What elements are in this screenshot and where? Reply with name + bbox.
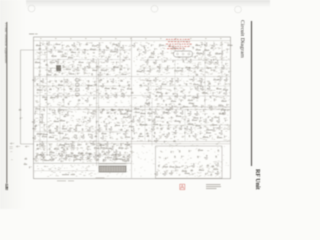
transistor Q93 <box>185 126 188 130</box>
wire <box>34 59 130 61</box>
capacitor C129 <box>78 144 81 147</box>
transistor Q70 <box>180 111 183 115</box>
transistor Q76 <box>88 118 91 122</box>
inductor L3 <box>86 43 88 45</box>
resistor R78 <box>58 84 64 86</box>
transistor Q84 <box>55 126 58 130</box>
net label <box>94 112 97 113</box>
transistor Q86 <box>74 127 77 131</box>
net label <box>178 57 181 58</box>
capacitor C88 <box>214 99 217 102</box>
inductor L58 <box>145 124 147 126</box>
resistor R61 <box>36 154 42 156</box>
capacitor C102 <box>63 125 66 128</box>
resistor R83 <box>202 92 208 94</box>
net label <box>203 74 205 75</box>
resistor R132 <box>124 160 130 162</box>
net label <box>138 128 140 130</box>
resistor R30 <box>42 96 48 98</box>
resistor R36 <box>135 111 141 113</box>
net label <box>116 138 118 139</box>
transistor Q58 <box>148 95 151 99</box>
capacitor C7 <box>124 51 127 54</box>
capacitor C95 <box>84 116 87 119</box>
capacitor C65 <box>62 72 65 75</box>
transistor Q5 <box>49 49 52 53</box>
capacitor C139 <box>226 104 229 107</box>
capacitor C103 <box>123 125 126 128</box>
capacitor C59 <box>108 56 111 59</box>
capacitor C10 <box>116 61 119 64</box>
net label <box>68 160 70 161</box>
capacitor C132 <box>59 158 62 161</box>
diode D42 <box>160 124 162 126</box>
transistor Q57 <box>122 94 125 98</box>
transistor Q138 <box>103 157 106 161</box>
resistor R7 <box>71 51 77 53</box>
diode D12 <box>167 122 169 124</box>
resistor R54 <box>54 148 60 150</box>
net label <box>59 92 62 94</box>
transistor Q40 <box>111 79 114 83</box>
inductor L55 <box>108 116 110 118</box>
resistor R127 <box>184 172 190 174</box>
transistor Q30 <box>204 43 207 47</box>
resistor R40 <box>219 113 225 115</box>
diode D41 <box>98 125 100 127</box>
wire <box>21 49 34 51</box>
capacitor C104 <box>168 124 171 127</box>
resistor R71 <box>121 73 127 75</box>
resistor R112 <box>206 132 212 134</box>
transistor Q141 <box>191 164 194 168</box>
net label <box>98 93 101 94</box>
wire <box>34 170 95 172</box>
capacitor C71 <box>167 65 170 68</box>
net label <box>45 56 47 58</box>
net label <box>55 138 58 139</box>
net label <box>216 97 219 98</box>
resistor R49 <box>62 137 68 139</box>
capacitor C11 <box>106 69 109 72</box>
net label <box>140 79 142 81</box>
diode D16 <box>146 129 148 131</box>
inductor L47 <box>121 93 123 95</box>
transistor Q44 <box>191 77 194 81</box>
net label <box>39 71 41 72</box>
net label <box>208 171 211 172</box>
transistor Q154 <box>49 157 52 161</box>
transistor Q62 <box>195 95 198 99</box>
wire <box>46 41 48 156</box>
net label <box>95 133 98 134</box>
capacitor C8 <box>44 60 47 63</box>
capacitor C45 <box>173 127 176 130</box>
diode D6 <box>107 81 109 83</box>
IC U3 <box>76 89 80 92</box>
resistor R67 <box>68 57 74 59</box>
net label <box>84 57 87 58</box>
resistor R28 <box>216 88 222 90</box>
inductor L39 <box>106 73 108 75</box>
resistor R122 <box>213 168 219 170</box>
inductor L51 <box>45 99 47 101</box>
inductor L18 <box>148 119 150 121</box>
net label <box>88 110 90 112</box>
net label <box>113 85 116 87</box>
capacitor C20 <box>225 63 228 66</box>
transistor Q31 <box>212 43 215 47</box>
capacitor C54 <box>66 154 69 157</box>
inductor L25 <box>95 135 97 137</box>
net label <box>196 93 199 94</box>
capacitor C52 <box>49 154 52 157</box>
resistor R125 <box>169 166 175 168</box>
diode D51 <box>179 150 181 152</box>
net label <box>72 70 75 71</box>
resistor R3 <box>55 43 61 45</box>
inductor L1 <box>19 109 21 111</box>
diode D29 <box>144 47 146 49</box>
net label <box>155 99 158 101</box>
net label <box>219 47 221 49</box>
net label <box>35 101 38 102</box>
resistor R10 <box>50 61 56 63</box>
transistor Q140 <box>204 155 207 159</box>
capacitor C21 <box>221 71 224 74</box>
capacitor C34 <box>35 112 38 115</box>
net label <box>101 96 104 97</box>
capacitor C135 <box>35 110 38 113</box>
transistor Q67 <box>153 110 156 114</box>
resistor R95 <box>155 116 161 118</box>
net label <box>195 109 198 110</box>
net label <box>93 55 96 57</box>
spine rule <box>6 22 8 184</box>
net label <box>122 122 125 123</box>
wire <box>184 110 186 141</box>
net label <box>101 62 104 64</box>
capacitor C35 <box>41 113 44 116</box>
inductor L61 <box>128 144 130 146</box>
page label RF UNIT <box>29 33 38 36</box>
transistor Q74 <box>32 120 35 124</box>
capacitor C56 <box>46 47 49 50</box>
transistor Q142 <box>216 163 219 167</box>
capacitor C61 <box>126 56 129 59</box>
net label <box>63 89 66 90</box>
resistor R63 <box>112 154 118 156</box>
resistor R2 <box>36 44 42 46</box>
net label <box>207 150 209 152</box>
resistor R89 <box>110 109 116 111</box>
inductor L26 <box>147 135 149 137</box>
net label <box>166 170 169 171</box>
transistor Q14 <box>75 67 78 71</box>
wire <box>174 60 176 100</box>
capacitor C105 <box>65 133 68 136</box>
net label <box>171 52 174 53</box>
net label <box>80 65 82 66</box>
schematic border frame <box>34 37 231 179</box>
inductor L66 <box>173 140 175 142</box>
net label <box>227 110 231 111</box>
transistor Q101 <box>101 136 104 140</box>
wire <box>59 107 61 141</box>
transistor Q129 <box>128 114 131 118</box>
net label <box>220 45 223 46</box>
diode D3 <box>213 70 215 72</box>
transistor Q33 <box>207 52 210 56</box>
net label <box>224 84 226 85</box>
resistor R39 <box>163 111 169 113</box>
capacitor C68 <box>154 48 157 51</box>
diode D37 <box>149 108 151 110</box>
wire <box>160 95 230 97</box>
diode D21 <box>36 156 38 158</box>
net label <box>183 48 185 50</box>
transistor Q79 <box>152 119 155 123</box>
wire <box>98 60 100 166</box>
resistor R8 <box>110 50 116 52</box>
inductor L45 <box>208 83 210 85</box>
wire antenna feed <box>20 50 22 144</box>
inductor L16 <box>100 111 102 113</box>
transistor Q21 <box>145 60 148 64</box>
diode D7 <box>58 88 60 90</box>
wire <box>34 49 130 51</box>
capacitor C112 <box>200 132 203 135</box>
transistor Q134 <box>41 143 44 147</box>
inductor L69 <box>212 165 214 167</box>
capacitor C92 <box>180 107 183 110</box>
resistor R82 <box>156 91 162 93</box>
net label <box>155 83 157 85</box>
capacitor C1 <box>20 117 23 120</box>
capacitor C128 <box>37 144 40 147</box>
resistor R117 <box>75 158 81 160</box>
net label <box>213 113 215 115</box>
capacitor C117 <box>102 151 105 154</box>
component value labels <box>36 42 231 177</box>
net label <box>37 92 39 93</box>
diode D27 <box>121 65 123 67</box>
transistor Q50 <box>159 86 162 90</box>
capacitor C94 <box>57 118 60 121</box>
capacitor C15 <box>139 53 142 56</box>
resistor R68 <box>113 66 119 68</box>
IC U4 <box>76 93 80 96</box>
inductor L8 <box>60 80 62 82</box>
capacitor C119 <box>148 140 151 143</box>
inductor L68 <box>207 165 209 167</box>
transistor Q105 <box>110 146 113 150</box>
diode D22 <box>54 47 56 49</box>
inductor L67 <box>191 170 193 172</box>
resistor R97 <box>193 117 199 119</box>
resistor R47 <box>42 135 48 137</box>
inductor L34 <box>39 48 41 50</box>
diode D10 <box>114 112 116 114</box>
diode D39 <box>115 118 117 120</box>
capacitor C122 <box>181 155 184 158</box>
capacitor C82 <box>173 93 176 96</box>
right margin section title <box>236 20 246 60</box>
wire <box>34 85 130 87</box>
transistor Q143 <box>155 172 158 176</box>
transistor Q122 <box>101 84 104 88</box>
diode D9 <box>68 103 70 105</box>
capacitor C55 <box>97 154 100 157</box>
capacitor C64 <box>39 74 42 77</box>
net label <box>120 145 122 147</box>
net label <box>174 126 177 127</box>
resistor R45 <box>62 128 68 130</box>
diode D43 <box>154 132 156 134</box>
inductor L10 <box>120 80 122 82</box>
net label <box>51 110 54 111</box>
net label <box>178 85 181 86</box>
inductor L37 <box>96 66 98 68</box>
resistor R119 <box>120 158 126 160</box>
wire <box>90 143 230 145</box>
diode D48 <box>174 156 176 158</box>
diode D40 <box>171 117 173 119</box>
wire <box>21 143 34 145</box>
net label <box>68 93 70 94</box>
transistor Q48 <box>86 86 89 90</box>
capacitor C23 <box>50 80 53 83</box>
spine page number <box>3 183 9 191</box>
capacitor C41 <box>109 122 112 125</box>
capacitor C2 <box>29 166 32 169</box>
net label <box>181 166 184 167</box>
net label <box>66 46 69 47</box>
transistor Q18 <box>143 50 146 54</box>
wire <box>34 141 230 143</box>
net label <box>85 125 88 127</box>
transistor Q19 <box>151 51 154 55</box>
resistor R53 <box>217 136 223 138</box>
inductor L71 <box>111 109 113 111</box>
capacitor C131 <box>121 143 124 146</box>
inductor L6 <box>168 45 170 47</box>
net label <box>99 117 102 118</box>
speckle texture <box>35 42 231 177</box>
transistor Q78 <box>137 118 140 122</box>
net label <box>37 58 40 59</box>
net label <box>182 125 184 127</box>
transistor Q80 <box>204 119 207 123</box>
inductor L29 <box>74 156 76 158</box>
resistor R93 <box>221 109 227 111</box>
net label <box>44 52 47 53</box>
capacitor C18 <box>201 43 204 46</box>
resistor R1 <box>24 163 28 165</box>
resistor R34 <box>188 102 194 104</box>
net label <box>207 81 209 82</box>
wire <box>34 131 130 133</box>
capacitor C3 <box>42 43 45 46</box>
inductor L22 <box>160 128 162 130</box>
capacitor C39 <box>83 120 86 123</box>
capacitor C24 <box>94 81 97 84</box>
net label <box>140 139 143 141</box>
inductor L56 <box>161 117 163 119</box>
transistor Q71 <box>188 111 191 115</box>
wire <box>36 154 130 156</box>
capacitor C69 <box>158 56 161 59</box>
net label <box>205 72 208 73</box>
diode D26 <box>63 65 65 67</box>
wire <box>39 41 41 148</box>
resistor R56 <box>100 147 106 149</box>
resistor R66 <box>62 55 68 57</box>
transistor Q51 <box>195 86 198 90</box>
inductor L44 <box>140 84 142 86</box>
transistor Q127 <box>209 106 212 110</box>
net label <box>114 143 116 145</box>
spine title text <box>1 23 9 83</box>
resistor R50 <box>125 136 131 138</box>
net label <box>210 73 213 75</box>
resistor R130 <box>99 144 105 146</box>
resistor R69 <box>46 74 52 76</box>
resistor R121 <box>199 169 205 171</box>
net label <box>50 144 52 146</box>
transistor Q123 <box>199 83 202 87</box>
net label <box>198 62 201 63</box>
transistor Q55 <box>106 95 109 99</box>
net label <box>58 153 60 155</box>
capacitor C86 <box>181 100 184 103</box>
net label <box>41 108 44 110</box>
net label <box>163 81 165 83</box>
net label <box>124 152 126 153</box>
capacitor C36 <box>87 112 90 115</box>
inductor L41 <box>196 74 198 76</box>
resistor R25 <box>104 87 110 89</box>
resistor R124 <box>163 166 169 168</box>
transistor Q77 <box>131 119 134 123</box>
off-page connector arrows <box>10 143 29 147</box>
diode D18 <box>189 135 191 137</box>
resistor R65 <box>51 55 57 57</box>
net label <box>142 110 145 111</box>
transistor Q17 <box>132 43 135 47</box>
resistor R80 <box>161 83 167 85</box>
net label <box>160 151 163 152</box>
resistor R103 <box>153 123 159 125</box>
resistor R12 <box>66 68 72 70</box>
resistor R107 <box>36 133 42 135</box>
resistor R35 <box>120 113 126 115</box>
diode D30 <box>193 47 195 49</box>
transistor Q128 <box>40 115 43 119</box>
transistor Q111 <box>98 154 101 158</box>
diode D58 <box>120 111 122 113</box>
capacitor C25 <box>127 81 130 84</box>
capacitor C125 <box>189 150 192 153</box>
capacitor C73 <box>227 48 230 51</box>
net label <box>141 57 143 59</box>
wire <box>119 41 121 76</box>
transistor Q73 <box>222 111 225 115</box>
transistor Q35 <box>209 60 212 64</box>
resistor R29 <box>223 89 229 91</box>
resistor R105 <box>195 125 201 127</box>
inductor L60 <box>146 133 148 135</box>
